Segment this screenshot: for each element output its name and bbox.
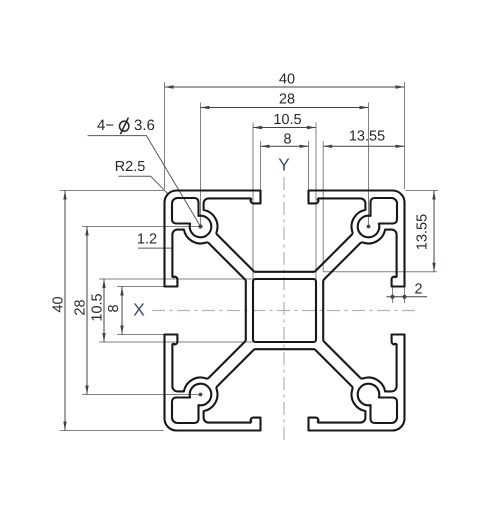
extension 10.5 left top [99, 278, 253, 280]
dim text 40 top [279, 73, 294, 83]
dim text 40 left [52, 297, 62, 312]
dimension 8 left [121, 287, 123, 335]
dimension 13.55 right top arrowhead [432, 191, 435, 200]
extension 28 left top to hole center [82, 226, 201, 228]
label 1.2 [138, 233, 156, 243]
dimension 28 top [201, 107, 369, 109]
dimension 40 top right arrowhead [396, 85, 405, 88]
dimension 13.55 right [433, 191, 435, 272]
dimension 10.5 left top arrowhead [102, 279, 105, 288]
corner pocket and screw hole top-left [172, 198, 211, 237]
extension 40 left top [60, 190, 164, 192]
dim text 10.5 left [91, 294, 101, 321]
extension 8 top left [260, 141, 262, 190]
extension 13.55 top [322, 141, 324, 272]
extension 8 left top [117, 286, 177, 288]
extension 2 left [392, 288, 394, 304]
profile outer boundary with T-slot cavities [165, 191, 405, 431]
axis label Y [279, 158, 290, 170]
label R2.5 [116, 161, 145, 171]
extension 8 top right [308, 141, 310, 190]
leader R2.5 [118, 176, 168, 194]
dim text 28 top [280, 93, 295, 103]
centerline Y axis [283, 177, 285, 444]
dimension 40 left [64, 191, 66, 431]
dim text 10.5 top [274, 114, 301, 124]
dimension 8 left top arrowhead [120, 287, 123, 296]
dim text 13.55 top [350, 130, 385, 140]
extension 28 top left to hole center [200, 103, 202, 227]
corner pocket and screw hole top-right [358, 198, 397, 237]
dim text 28 left [74, 300, 84, 315]
dimension 10.5 top [253, 127, 316, 129]
dimension 10.5 left [103, 279, 105, 342]
dimension 8 left bottom arrowhead [120, 326, 123, 335]
label 4-phi3.6 [97, 120, 113, 130]
dimension 13.55 top right arrowhead [396, 145, 405, 148]
leader 1.2 underline [138, 247, 172, 249]
extension 40 top right [404, 82, 406, 189]
dimension 40 top [165, 86, 405, 88]
extension 40 top left [164, 82, 166, 189]
dimension 8 top left arrowhead [261, 145, 270, 148]
dimension 28 top left arrowhead [201, 106, 210, 109]
leader 4-phi3.6 [88, 136, 201, 227]
dimension 8 top right arrowhead [300, 145, 309, 148]
dot at top-right hole center [367, 225, 371, 229]
extension 13.55 right bottom [323, 271, 437, 273]
phi symbol [120, 118, 129, 135]
extension 8 left bottom [117, 334, 177, 336]
leader dot at top-left hole center [198, 224, 202, 228]
dim text 8 left [108, 305, 118, 312]
extension 10.5 top right [315, 123, 317, 280]
extension 10.5 top left [252, 123, 254, 280]
dimension 2 dot left [390, 295, 394, 299]
centerline X axis [152, 310, 417, 312]
extension 2 right [404, 288, 406, 304]
dimension 13.55 top left arrowhead [323, 145, 332, 148]
dimension 40 left top arrowhead [63, 191, 66, 200]
dimension 8 top [261, 145, 309, 147]
extension 28 left bottom to hole center [82, 394, 201, 396]
dimension 40 left bottom arrowhead [63, 422, 66, 431]
dimension 28 top right arrowhead [360, 106, 369, 109]
dimension 10.5 top right arrowhead [307, 126, 316, 129]
axis label X [134, 303, 145, 315]
extension 10.5 left bottom [99, 341, 253, 343]
corner pocket and screw hole bottom-right [358, 384, 397, 423]
dim text 13.55 right [416, 214, 426, 249]
central square bore [253, 279, 316, 342]
dim text 8 top [284, 133, 291, 143]
dimension 10.5 left bottom arrowhead [102, 333, 105, 342]
dimension 28 left bottom arrowhead [85, 386, 88, 395]
dimension 13.55 right bottom arrowhead [432, 263, 435, 272]
dimension 2 dot right [402, 295, 406, 299]
dim text 2 [415, 283, 422, 293]
corner pocket and screw hole bottom-left [172, 384, 211, 423]
dot at bottom-left hole center [199, 393, 203, 397]
extension 40 left bottom [60, 430, 164, 432]
dimension 28 left top arrowhead [85, 227, 88, 236]
dimension 28 left [86, 227, 88, 395]
dimension 40 top left arrowhead [165, 85, 174, 88]
extension 28 top right to hole center [368, 103, 370, 227]
dimension 10.5 top left arrowhead [253, 126, 262, 129]
extension 13.55 right top [406, 190, 439, 192]
dimension 13.55 top [323, 145, 404, 147]
dimension 2 line [387, 296, 428, 298]
